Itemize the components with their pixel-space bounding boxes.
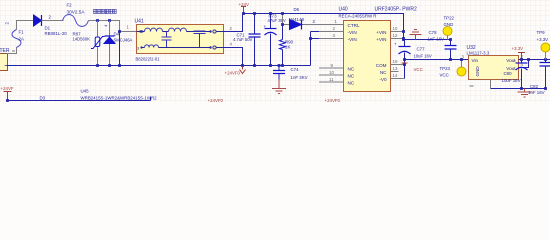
capacitor bridge B (194, 31, 206, 48)
svg-text:NC: NC (348, 74, 355, 79)
svg-text:+VIN: +VIN (376, 37, 386, 42)
svg-text:D3: D3 (40, 96, 46, 101)
capacitor C73 (polarized) (264, 14, 286, 66)
svg-text:+: + (394, 42, 397, 47)
junction (309, 37, 312, 40)
+24VF power symbol bottom left (1, 86, 14, 101)
svg-text:U40: U40 (339, 7, 348, 13)
svg-text:10uF 16V: 10uF 16V (502, 78, 521, 83)
capacitor C80 (polarized) (502, 58, 528, 89)
svg-text:C74: C74 (291, 67, 300, 72)
svg-text:2A: 2A (19, 37, 24, 42)
fuse F2 (63, 3, 117, 27)
svg-text:+VIN: +VIN (376, 30, 386, 35)
junction (520, 58, 523, 61)
test point TP22 (443, 16, 455, 40)
svg-text:LM1117-3.3: LM1117-3.3 (467, 51, 490, 56)
wire +VIN cap rail (404, 39, 451, 41)
wire bottom left rail (8, 97, 151, 101)
svg-text:30V2.5A: 30V2.5A (67, 10, 86, 15)
svg-text:12: 12 (393, 33, 398, 38)
junction (402, 37, 405, 40)
capacitor C82 (528, 60, 550, 96)
junction (118, 64, 121, 67)
svg-text:1nF 16V: 1nF 16V (428, 37, 445, 42)
wire branch to D5 (283, 14, 326, 25)
svg-text:NC: NC (380, 70, 387, 75)
earth ground (red) (272, 80, 286, 94)
test point TP23 (440, 60, 467, 78)
svg-text:COM: COM (376, 63, 387, 68)
earth ground (red) bottom right (518, 89, 532, 98)
wire D1 to fuse F2 (42, 20, 64, 22)
junction (403, 58, 406, 61)
svg-text:D5: D5 (294, 7, 300, 12)
junction (402, 38, 405, 41)
svg-text:+: + (514, 58, 517, 63)
svg-text:10uF 16V: 10uF 16V (414, 54, 432, 59)
inductor bottom coil (145, 45, 159, 48)
svg-text:10: 10 (329, 70, 334, 75)
junction (281, 64, 284, 67)
junction (520, 87, 523, 90)
svg-text:14: 14 (393, 73, 398, 78)
svg-text:NC: NC (348, 67, 355, 72)
junction (403, 63, 406, 66)
wire x119 drop to return rail (119, 32, 121, 66)
wire F2 to U41 (89, 21, 138, 32)
svg-text:+24VF: +24VF (1, 86, 14, 91)
svg-text:RECA-2405SRW R: RECA-2405SRW R (339, 14, 377, 19)
VCC power symbol (402, 63, 423, 72)
U32 pin4 wire (519, 60, 529, 68)
wire bottom row (159, 47, 210, 49)
junction at D4 top (108, 19, 111, 22)
junction (281, 23, 284, 26)
VCC rail (405, 59, 469, 61)
resistor R90 (280, 25, 294, 66)
svg-text:10: 10 (393, 26, 398, 31)
junction (253, 12, 256, 15)
regulator U32 (467, 45, 519, 80)
diode D5 (289, 7, 305, 30)
U40 right pins (391, 32, 405, 79)
capacitor C74 (273, 66, 308, 81)
svg-text:+: + (264, 24, 267, 29)
svg-text:B82022/2-01: B82022/2-01 (136, 57, 161, 62)
svg-text:C77: C77 (417, 47, 426, 52)
junction (253, 64, 256, 67)
connector J (left edge, clipped) (0, 48, 15, 71)
wire return rail (7, 65, 311, 67)
junction (527, 58, 530, 61)
svg-text:CTRL: CTRL (348, 23, 360, 28)
svg-text:+3.3V: +3.3V (537, 37, 549, 42)
junction (6, 99, 9, 102)
earth (red) above rail (410, 30, 422, 40)
filter U41 (135, 19, 224, 62)
U32 pin2 wire (519, 59, 550, 61)
+24V power symbol (239, 2, 249, 14)
U41 right pin top (209, 30, 211, 32)
svg-text:1N4148: 1N4148 (289, 17, 305, 22)
svg-text:GND: GND (444, 22, 454, 27)
svg-text:URF2405P- PWR2: URF2405P- PWR2 (375, 7, 417, 13)
svg-text:U45: U45 (81, 89, 90, 94)
svg-text:SMCJ46A: SMCJ46A (114, 38, 133, 43)
test point TP9 (537, 30, 550, 60)
capacitor C78 (428, 30, 457, 60)
junction (544, 58, 547, 61)
svg-text:Vin: Vin (472, 58, 479, 63)
junction at R87 bottom (96, 64, 99, 67)
svg-text:C78: C78 (429, 30, 438, 35)
junction (281, 12, 284, 15)
svg-text:1nF 16V: 1nF 16V (528, 90, 545, 95)
wire (187, 31, 210, 33)
junction (278, 64, 281, 67)
svg-text:-VIN: -VIN (348, 37, 357, 42)
svg-text:RB081L-20: RB081L-20 (45, 31, 68, 36)
junction (269, 12, 272, 15)
svg-text:13: 13 (393, 66, 398, 71)
svg-text:VCC: VCC (440, 73, 449, 78)
svg-text:+24VF0: +24VF0 (208, 98, 224, 102)
svg-text:D4: D4 (114, 32, 120, 37)
svg-text:1K: 1K (285, 44, 290, 49)
varistor R87 (73, 21, 105, 66)
svg-text:14D560K: 14D560K (73, 36, 91, 41)
wire right side down (404, 60, 406, 79)
svg-text:TP23: TP23 (440, 66, 451, 71)
svg-text:11: 11 (329, 77, 334, 82)
U41 pin1 arrow (137, 31, 145, 33)
wire U41 pin2 out to +24V rail (224, 14, 243, 32)
svg-text:NC: NC (348, 81, 355, 86)
junction (449, 38, 452, 41)
svg-text:D1: D1 (45, 26, 51, 31)
capacitor C77 (polarized) (394, 40, 432, 60)
junction (402, 30, 405, 33)
junction (460, 58, 463, 61)
wire connector pin1 to fuse (7, 48, 17, 54)
svg-text:1nF 3KV: 1nF 3KV (291, 75, 308, 80)
wire (163, 31, 169, 33)
svg-text:VCC: VCC (414, 67, 423, 72)
svg-text:47uF 35V: 47uF 35V (268, 18, 286, 23)
junction (269, 64, 272, 67)
svg-text:16: 16 (393, 59, 398, 64)
svg-text:4.7uF 50V: 4.7uF 50V (233, 37, 253, 42)
junction (118, 30, 121, 33)
svg-text:GND: GND (475, 66, 480, 77)
junction pin4/return (241, 64, 244, 67)
junction (242, 12, 245, 15)
svg-text:TP22: TP22 (444, 16, 455, 21)
svg-text:TP9: TP9 (537, 30, 546, 35)
svg-text:-V0: -V0 (379, 77, 387, 82)
fuse F1 (12, 30, 24, 48)
wire U41 pin4 out to return rail (224, 48, 243, 66)
svg-text:-VIN: -VIN (348, 30, 357, 35)
svg-text:C82: C82 (530, 84, 539, 89)
junction at R87 top (96, 19, 99, 22)
wire connector pin2 stub (5, 65, 7, 67)
+24VF0 power arrow (225, 67, 246, 76)
+3.3V power symbol (512, 46, 526, 60)
U40 left pins (319, 25, 344, 83)
inductor top coil 2 (169, 28, 187, 31)
inductor top coil 1 (145, 28, 163, 31)
capacitor bridge A (162, 32, 172, 48)
U32 GND pin (470, 80, 491, 89)
wire -VIN vertical (311, 32, 344, 66)
TVS diode D4 (104, 21, 133, 66)
diode D1 (34, 15, 68, 36)
svg-text:F1: F1 (19, 30, 25, 35)
capacitor C71 (233, 14, 261, 66)
svg-text:+3.3V: +3.3V (512, 46, 524, 51)
wire +24V rail (243, 14, 404, 40)
svg-text:F2: F2 (67, 3, 73, 8)
svg-text:+24VF0: +24VF0 (325, 98, 341, 102)
svg-text:+24VF0: +24VF0 (225, 71, 241, 76)
wire fuse to D1 (17, 21, 34, 30)
svg-text:WRB2415S-1WR2&WRB2415S-1WR2: WRB2415S-1WR2&WRB2415S-1WR2 (81, 96, 158, 101)
ground rail bottom right (491, 88, 546, 90)
DC-DC module U40 (339, 7, 417, 92)
junction (544, 87, 547, 90)
svg-text:U41: U41 (135, 19, 144, 25)
junction at D4 bottom (108, 64, 111, 67)
junction (449, 58, 452, 61)
U40 pin names (348, 23, 388, 86)
svg-text:C80: C80 (504, 71, 513, 76)
